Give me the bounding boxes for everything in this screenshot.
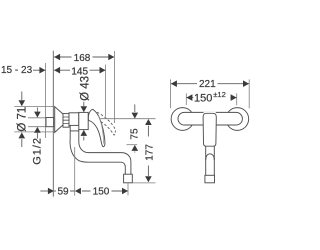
svg-text:177: 177	[144, 144, 155, 161]
dimension D71 tail bottom	[21, 139, 23, 147]
node 168 text gap	[72, 52, 93, 63]
component left escutcheon front view	[171, 108, 194, 131]
wire extension line y=182.9	[133, 182, 156, 184]
arrow 150 right	[122, 188, 128, 195]
component union nut	[63, 114, 69, 128]
wire extension line x=186.3	[185, 93, 187, 105]
arrow 168 right	[108, 54, 114, 61]
arrow G12 up	[34, 127, 41, 133]
dimension 168 line	[54, 56, 114, 58]
node handle erase patch	[204, 112, 216, 115]
dimension 177 tail top	[147, 126, 149, 137]
dimension 15-23 line	[33, 69, 45, 71]
wire spout inner edge	[79, 130, 131, 175]
arrow 177 down	[145, 176, 152, 182]
component escutcheon flange side view	[55, 107, 63, 133]
dimension 59 line	[54, 190, 75, 192]
arrow 75 up	[132, 145, 139, 151]
dimension 221 line	[171, 83, 249, 85]
arrow 145 right	[100, 67, 106, 74]
dimension 75 tail top	[134, 104, 136, 112]
node spout bend arc front view	[206, 154, 215, 160]
svg-text:150: 150	[194, 93, 212, 105]
wire extension line G1/2 bottom y=126.7	[28, 126, 46, 128]
wire lever interior form line	[99, 116, 104, 144]
wire lever alternate position dashed inner	[101, 122, 114, 136]
node 150 text gap	[91, 186, 112, 197]
wire extension line spout pivot x=74.9	[74, 147, 76, 196]
node 59 text gap	[56, 186, 70, 196]
dimension 75 tail bottom	[134, 152, 136, 153]
component aerator front view	[205, 175, 215, 183]
component aerator side view	[124, 174, 133, 183]
svg-text:Ø 43: Ø 43	[79, 76, 91, 101]
arrow 59 left	[48, 188, 54, 195]
node spout swivel joint line	[70, 130, 79, 132]
node 221 text gap	[197, 78, 218, 89]
wire extension line G1/2 top y=117.8	[28, 117, 46, 119]
wire lever alternate tip dashed	[114, 130, 115, 135]
svg-text:Ø 71: Ø 71	[17, 107, 29, 132]
dimension 177 tail bottom	[147, 166, 149, 177]
component faucet body side view	[69, 113, 79, 126]
wire extension line outlet x=128	[127, 183, 129, 195]
wire extension line x=105.6	[105, 65, 107, 117]
dimension D43 tail top	[83, 102, 85, 106]
component spout pipe front view	[206, 146, 215, 175]
node 150+-12 text gap	[193, 92, 230, 103]
arrow 221 right	[243, 80, 249, 87]
arrow 150+-12 left	[186, 94, 192, 101]
arrow 75 down	[132, 113, 139, 119]
dimension G12 tail top	[36, 108, 38, 112]
arrow D43 up	[81, 130, 88, 136]
svg-text:221: 221	[199, 79, 216, 90]
arrow 145 left	[54, 67, 60, 74]
wire extension line axis y=118.8	[89, 118, 156, 120]
wire extension line y=144.6	[127, 144, 138, 146]
arrow 177 up	[145, 119, 152, 125]
arrow 15-23 right	[39, 67, 45, 74]
wire extension line flange top y=106.5	[14, 106, 54, 108]
dimension 145 line	[54, 69, 105, 71]
svg-text:59: 59	[57, 186, 69, 197]
wire wall surface line	[52, 51, 54, 197]
wire extension line flange bottom y=131.9	[14, 131, 55, 133]
wire extension line x=170.5	[170, 79, 172, 108]
component pivot cartridge housing	[79, 112, 88, 129]
component body bar front view	[178, 112, 242, 125]
svg-text:G1/2: G1/2	[32, 137, 44, 165]
wire lever alternate position dashed outer	[97, 112, 115, 130]
arrow G12 down	[34, 112, 41, 118]
wire extension line x=114.4	[113, 51, 115, 123]
arrow 221 left	[171, 80, 177, 87]
node nut hatch lines	[63, 117, 69, 123]
dimension 150 line	[82, 190, 128, 192]
arrow D71 down	[19, 100, 26, 106]
dimension 59-150 baseline left tail	[40, 190, 53, 192]
arrow D43 down	[81, 106, 88, 112]
dimension D71 tail top	[21, 92, 23, 101]
svg-text:±12: ±12	[213, 90, 225, 99]
arrow 150+-12 right	[231, 94, 237, 101]
component handle front view	[203, 113, 216, 146]
dimension 150+-12 line	[186, 97, 236, 99]
wire rough-in wall line	[45, 63, 47, 138]
arrow D71 up	[19, 132, 26, 138]
svg-text:15 - 23: 15 - 23	[1, 65, 33, 76]
wire extension line x=236.7	[236, 93, 238, 105]
svg-text:150: 150	[93, 186, 110, 197]
component wall nipple G1/2	[46, 118, 54, 127]
component spout side view	[70, 126, 125, 175]
arrow 168 left	[54, 54, 60, 61]
arrow 150 left	[75, 188, 81, 195]
component right escutcheon front view	[226, 108, 249, 131]
node 145 text gap	[70, 65, 90, 76]
svg-text:75: 75	[130, 128, 141, 140]
svg-text:145: 145	[71, 66, 88, 77]
svg-text:168: 168	[74, 53, 91, 64]
dimension D43 tail bottom	[83, 137, 85, 141]
dimension G12 tail bottom	[36, 133, 38, 139]
wire extension line x=249.2	[248, 79, 250, 108]
component lever handle side view	[88, 109, 104, 146]
